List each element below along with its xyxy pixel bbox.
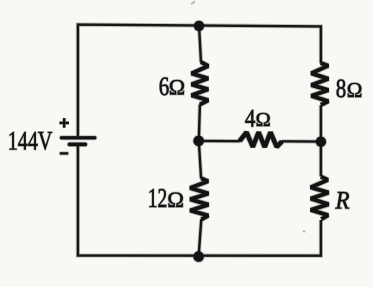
svg-text:Ω: Ω bbox=[167, 187, 184, 212]
svg-text:Ω: Ω bbox=[256, 109, 271, 131]
svg-text:4: 4 bbox=[245, 106, 256, 133]
svg-text:Ω: Ω bbox=[169, 75, 185, 100]
svg-text:R: R bbox=[335, 188, 350, 215]
svg-text:8: 8 bbox=[336, 74, 347, 103]
svg-text:12: 12 bbox=[148, 183, 168, 213]
svg-text:6: 6 bbox=[159, 72, 170, 101]
svg-text:144V: 144V bbox=[8, 126, 53, 156]
svg-text:Ω: Ω bbox=[347, 78, 363, 102]
